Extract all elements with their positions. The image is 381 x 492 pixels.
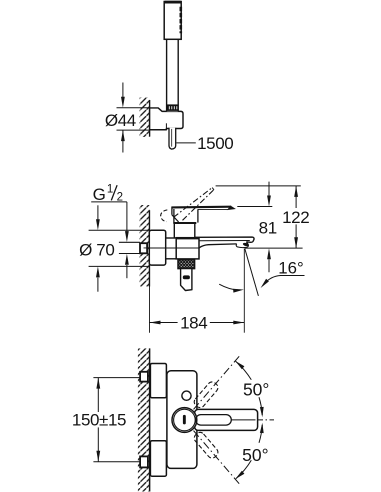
svg-text:122: 122 [282,208,309,227]
lever center line [231,419,255,421]
dimension 184 line with arrows [150,322,245,324]
neck [173,224,175,238]
head nozzle dashes [180,7,183,33]
escutcheon bottom (plan) [150,441,166,477]
lower 50 arc with arrows [259,425,262,443]
lower 50 ghost lever bar [189,427,243,487]
leader 1500 [176,142,196,144]
svg-text:50°: 50° [243,379,269,399]
handle connector dark band [166,104,178,111]
spout top edge [196,237,255,242]
spout underside curve [199,244,237,248]
escutcheon (wall plate) [149,230,165,265]
svg-text:50°: 50° [242,445,268,465]
dimension Ø44 arrow lines [122,83,124,99]
label 122 [283,208,308,224]
16 degree stream line [245,249,259,296]
wall (top section) hatching [140,97,150,137]
mixer body [176,238,199,259]
dimension Ø70 arrow lines [97,205,99,221]
dimension 122 extension line [216,185,301,187]
dimension 150+-15 extension lines [93,377,140,379]
wall face line (bottom) [149,348,151,491]
shower hose [169,128,176,149]
svg-text:150±15: 150±15 [72,411,126,430]
lever (plan) outer [195,409,258,430]
dimension Ø44 extension lines [117,107,150,109]
lever raised position dash-dot lines [174,188,213,218]
svg-text:Ø 70: Ø 70 [79,240,114,259]
head top thick edge [165,1,181,4]
vertical reference line from spout tip [243,249,245,333]
center line through inlet [144,247,166,249]
spout aerator [236,242,248,248]
body center seam line [150,247,199,249]
supply square bottom [140,456,148,467]
hose inner line [171,129,173,147]
spout inner top line [199,240,250,242]
wall (middle) hatching [140,205,150,287]
lever inner stadium [196,415,232,426]
temperature ring small circle [182,391,191,400]
hand shower handle [167,39,179,111]
escutcheon top (plan) [150,364,166,398]
svg-text:16°: 16° [278,258,303,277]
supply pipe lines in wall [119,241,140,243]
bracket notch detail line [165,123,167,128]
label 184 [178,314,210,330]
shower holder bracket [150,108,183,130]
wall face line (top section) [149,100,151,137]
dimension Ø70 extension lines [89,229,150,231]
pivot dome outer circle [172,408,197,433]
svg-text:G: G [93,185,106,204]
pivot dome inner circle [174,409,196,431]
svg-text:81: 81 [259,219,277,238]
16 degree leader with arrow [264,276,305,285]
svg-text:1: 1 [107,183,113,195]
lever swing dashed arc [161,210,168,222]
svg-text:1500: 1500 [197,134,233,153]
lever screw slot [183,415,186,425]
hand shower head [164,2,181,40]
svg-text:Ø44: Ø44 [105,111,136,130]
G 1/2 underline and leader [91,201,127,203]
cartridge cap under lever [173,209,175,223]
dimension 81 extension line [237,206,272,208]
dimension 150+-15 line with arrows [97,378,99,462]
svg-text:184: 184 [180,314,207,333]
mixer body (plan) [167,371,197,469]
wall face line (middle) [148,210,150,286]
label 150+-15 [74,412,126,427]
knurled hose-connection nut [178,260,195,269]
wall face extension line down to 184 dimension [148,287,150,333]
supply square top [140,372,148,382]
dimension 81 arrow lines [268,182,270,197]
shoulder thick line [173,222,196,224]
body connector [166,238,177,259]
inlet connection square [140,243,147,253]
16 degree arc arrow (left) [219,284,240,290]
upper 50 arc with arrows [236,361,252,380]
hand shower outlet [181,269,192,291]
dimension 122 line with arrows [295,186,297,248]
upper 50 ghost lever bar [189,352,243,412]
lever handle (solid, rest position) [172,206,231,209]
wall (bottom section) hatching [138,348,149,491]
bottom reference line (spout outlet level) [245,247,303,249]
outlet slot [183,275,190,279]
